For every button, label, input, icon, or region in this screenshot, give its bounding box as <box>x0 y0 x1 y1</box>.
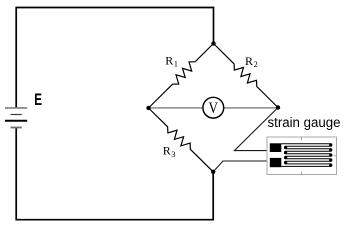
wire: top + left upper (battery to top node) <box>16 8 213 108</box>
svg-text:2: 2 <box>254 59 258 69</box>
wire: right node to strain gauge top pad <box>234 108 278 151</box>
label strain gauge <box>268 115 341 130</box>
node: top <box>211 41 215 45</box>
svg-text:1: 1 <box>174 59 178 69</box>
svg-text:3: 3 <box>171 149 175 159</box>
wire: left lower + bottom (battery to bottom node) <box>16 128 213 220</box>
svg-text:strain gauge: strain gauge <box>268 115 341 130</box>
node: right <box>276 105 280 109</box>
resistor R1 <box>149 44 214 109</box>
svg-text:V: V <box>209 100 219 117</box>
strain gauge grid <box>281 143 332 167</box>
strain gauge pad 2 <box>270 158 282 167</box>
label E <box>34 91 42 109</box>
label R2 <box>245 54 258 69</box>
voltmeter V <box>203 97 224 118</box>
wire: left node to voltmeter <box>149 107 204 109</box>
resistor R3 <box>149 108 214 172</box>
resistor R2 <box>214 44 279 108</box>
strain gauge body <box>267 137 337 175</box>
strain gauge pad 1 <box>270 143 282 152</box>
node: left <box>146 106 150 110</box>
wire: bottom node to strain gauge bottom pad <box>213 161 270 172</box>
svg-text:R: R <box>163 144 171 158</box>
label R1 <box>165 53 178 68</box>
battery E <box>5 108 27 128</box>
svg-text:R: R <box>245 54 253 68</box>
svg-text:E: E <box>34 91 42 109</box>
node: bottom <box>211 170 215 174</box>
wire: voltmeter to right node <box>224 107 278 109</box>
svg-text:R: R <box>165 53 173 67</box>
label R3 <box>163 144 176 159</box>
